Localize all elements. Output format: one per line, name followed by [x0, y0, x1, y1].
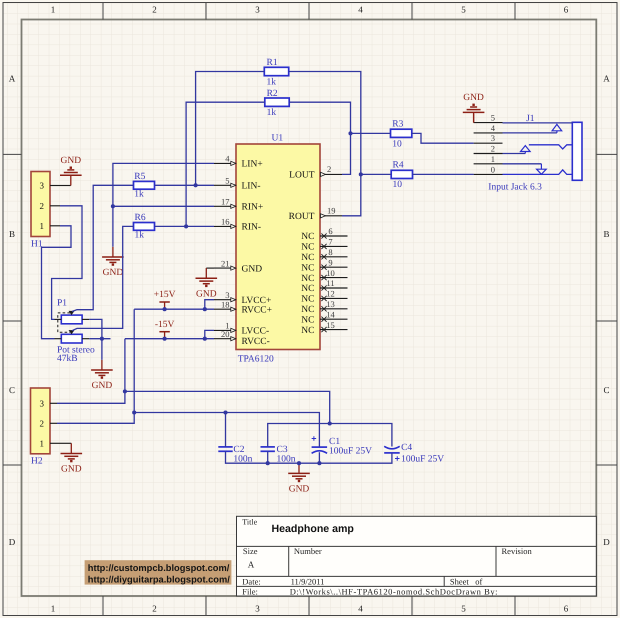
svg-text:Number: Number	[294, 546, 322, 556]
U1 pin 19 ROUT	[289, 206, 342, 222]
wire C3 bottom	[267, 451, 269, 463]
svg-text:6: 6	[564, 604, 569, 614]
junction C1 bottom	[317, 461, 321, 465]
U1 pin 20 RVCC-	[214, 329, 270, 347]
svg-text:NC: NC	[301, 253, 314, 263]
url note box	[85, 560, 232, 584]
svg-text:GND: GND	[196, 289, 217, 299]
svg-text:+15V: +15V	[154, 290, 176, 300]
ground at H1	[60, 156, 82, 185]
junction rail3 at C1 column	[328, 421, 332, 425]
wire H1 pin2 to pot section1	[52, 206, 82, 320]
svg-text:+: +	[395, 454, 400, 464]
wire +15V rail	[134, 308, 214, 310]
svg-text:GND: GND	[242, 264, 263, 274]
zone column ticks bottom	[103, 596, 515, 616]
capacitor C1 polarized	[311, 433, 372, 456]
svg-text:GND: GND	[103, 268, 124, 278]
svg-text:3: 3	[255, 5, 260, 15]
zone row ticks left	[3, 154, 22, 465]
U1 pin 6 NC	[301, 226, 347, 242]
junction +15V port	[163, 307, 167, 311]
svg-text:R3: R3	[392, 120, 403, 130]
J1 ring contact	[529, 145, 572, 149]
wire ROUT net to R4	[361, 173, 391, 175]
svg-text:NC: NC	[301, 232, 314, 242]
junction rail2 at H2 riser	[132, 410, 136, 414]
H1 pin 3 wire to ground	[60, 185, 71, 187]
J1 sleeve wire pin 5 to body	[503, 122, 573, 124]
svg-text:B: B	[9, 229, 15, 239]
svg-text:100uF 25V: 100uF 25V	[329, 446, 372, 456]
wire pot wiper1 to R5	[72, 185, 134, 311]
junction ROUT to R4	[359, 172, 363, 176]
svg-text:1: 1	[51, 604, 56, 614]
junction pot ground	[100, 337, 104, 341]
ground at H2	[61, 443, 83, 474]
J1 pin 1	[474, 154, 503, 164]
ground at U1 pin 21	[206, 267, 214, 269]
svg-text:RIN+: RIN+	[242, 203, 264, 213]
svg-text:17: 17	[221, 197, 230, 207]
U1 pin 12 NC	[301, 289, 347, 305]
svg-text:A: A	[603, 74, 610, 84]
svg-text:14: 14	[326, 309, 335, 319]
svg-text:10: 10	[326, 268, 335, 278]
svg-text:C1: C1	[329, 437, 340, 447]
resistor R5	[134, 172, 155, 200]
zone letters left	[9, 74, 16, 548]
wire bottom ground rail	[226, 451, 392, 463]
svg-text:GND: GND	[61, 465, 82, 475]
zone numbers top	[51, 5, 569, 15]
wire C1 bottom	[318, 452, 320, 463]
J1 pin 4 switch arrow	[503, 124, 562, 132]
svg-text:C4: C4	[401, 443, 412, 453]
svg-text:10: 10	[392, 139, 402, 149]
ground at pot P1	[91, 360, 113, 391]
U1 pin 2 LOUT	[289, 164, 342, 180]
jack J1 body	[572, 122, 582, 180]
svg-text:RVCC-: RVCC-	[242, 337, 270, 347]
svg-text:GND: GND	[92, 381, 113, 391]
wire C2 riser	[225, 413, 227, 447]
svg-text:2: 2	[152, 5, 157, 15]
svg-text:R6: R6	[135, 213, 146, 223]
svg-text:11: 11	[326, 278, 334, 288]
wire LVCC- branch	[205, 330, 214, 338]
svg-text:C3: C3	[277, 445, 288, 455]
svg-text:10: 10	[393, 180, 403, 190]
svg-text:LVCC+: LVCC+	[242, 296, 272, 306]
U1 pin 13 NC	[301, 299, 347, 315]
svg-text:Headphone amp: Headphone amp	[272, 523, 355, 535]
junction -15V port	[163, 337, 167, 341]
junction C3 bottom	[266, 461, 270, 465]
U1 pin 7 NC	[301, 237, 347, 253]
svg-text:1k: 1k	[267, 108, 277, 118]
wire LVCC+ branch	[205, 300, 214, 310]
pot P1 pin stubs	[55, 319, 90, 338]
svg-text:R4: R4	[393, 161, 404, 171]
svg-text:RIN-: RIN-	[242, 223, 262, 233]
title block frame	[237, 516, 597, 596]
op-amp U1 body	[236, 144, 320, 350]
junction LOUT to R3	[348, 131, 352, 135]
wire -15V rail	[125, 338, 214, 340]
svg-text:Revision: Revision	[502, 546, 533, 556]
svg-text:+: +	[311, 433, 316, 443]
U1 pin 4 LIN+	[214, 154, 263, 170]
svg-text:Size: Size	[243, 546, 258, 556]
svg-text:5: 5	[225, 176, 229, 186]
svg-text:NC: NC	[301, 326, 314, 336]
svg-text:GND: GND	[61, 156, 82, 166]
wire rail3 minus caps	[268, 424, 392, 447]
svg-text:9: 9	[328, 257, 332, 267]
junction rail2 at C2	[223, 410, 227, 414]
svg-text:LIN-: LIN-	[242, 182, 261, 192]
svg-text:2: 2	[152, 604, 157, 614]
J1 pin 2	[474, 144, 503, 154]
svg-text:NC: NC	[301, 284, 314, 294]
H2 pin 1	[40, 439, 58, 449]
U1 pin 5 LIN-	[214, 176, 261, 192]
svg-text:4: 4	[358, 5, 363, 15]
svg-text:1: 1	[491, 154, 495, 164]
svg-text:19: 19	[327, 206, 336, 216]
zone column ticks top	[103, 3, 515, 20]
svg-text:2: 2	[40, 419, 45, 429]
H2 pin 2	[40, 419, 58, 429]
svg-text:16: 16	[221, 217, 230, 227]
svg-text:12: 12	[326, 289, 335, 299]
wire -15V drop to rail1	[57, 339, 125, 404]
U1 pin 9 NC	[301, 257, 347, 273]
svg-text:C2: C2	[233, 445, 244, 455]
svg-text:0: 0	[491, 164, 495, 174]
svg-text:47kB: 47kB	[57, 354, 78, 364]
wire pot wiper2 to R6	[72, 226, 134, 330]
capacitor C2	[218, 445, 252, 465]
J1 pin 3	[474, 133, 503, 143]
U1 pin 21 GND	[214, 258, 262, 274]
svg-text:1: 1	[40, 439, 45, 449]
svg-text:5: 5	[491, 113, 495, 123]
resistor R1	[264, 58, 288, 87]
svg-text:4: 4	[358, 604, 363, 614]
junction LVCC- RVCC-	[203, 337, 207, 341]
svg-text:15: 15	[326, 320, 335, 330]
svg-text:Sheet: Sheet	[450, 577, 470, 587]
svg-text:7: 7	[328, 237, 332, 247]
wire R4 to J1 pin 0	[413, 173, 474, 175]
wire H1 pin1 to pot section2	[42, 226, 72, 339]
U1 pin 15 NC	[301, 320, 347, 336]
power port -15V	[155, 320, 175, 332]
svg-text:6: 6	[564, 5, 569, 15]
U1 pin 10 NC	[301, 268, 347, 284]
U1 pin 8 NC	[301, 247, 347, 263]
U1 pin 11 NC	[301, 278, 347, 294]
svg-text:5: 5	[461, 5, 466, 15]
svg-text:11/9/2011: 11/9/2011	[291, 577, 325, 587]
svg-text:NC: NC	[301, 315, 314, 325]
svg-text:13: 13	[326, 299, 335, 309]
title block labels	[242, 518, 532, 597]
J1 tip contact	[503, 170, 573, 175]
svg-text:1k: 1k	[135, 231, 145, 241]
svg-text:D: D	[9, 537, 16, 547]
J1 pin 4	[474, 123, 503, 133]
U1 pin 18 RVCC+	[214, 299, 272, 315]
wire R2 feedback left	[186, 102, 265, 226]
svg-text:http://diyguitarpa.blogspot.co: http://diyguitarpa.blogspot.com/	[88, 575, 230, 585]
svg-text:3: 3	[40, 399, 45, 409]
resistor R3	[391, 120, 412, 150]
svg-text:LOUT: LOUT	[289, 171, 315, 181]
svg-text:Title: Title	[242, 518, 257, 527]
H2 pin 3	[40, 399, 58, 409]
svg-text:TPA6120: TPA6120	[238, 354, 274, 364]
svg-text:21: 21	[221, 258, 230, 268]
zone letters right	[603, 74, 610, 548]
power port +15V	[154, 290, 176, 302]
wire LOUT net to R3	[351, 132, 391, 134]
pot P1 section 2 wiper arrow	[69, 330, 75, 334]
svg-text:20: 20	[221, 329, 230, 339]
zone row ticks right	[596, 154, 617, 465]
wire R6 to RIN-	[155, 225, 215, 227]
wire +15V drop to rail2	[57, 309, 134, 423]
connector H2 body	[31, 388, 51, 454]
wire RIN+ branch	[113, 205, 214, 207]
svg-text:Date:: Date:	[242, 577, 260, 587]
wire LIN+ to ground net	[113, 163, 214, 246]
pot P1 gang dashed link	[58, 313, 70, 332]
resistor R4	[391, 161, 412, 191]
svg-text:A: A	[248, 559, 255, 569]
svg-text:2: 2	[491, 144, 495, 154]
J1 pin 2 switch arrow	[503, 146, 531, 154]
svg-text:1k: 1k	[134, 190, 144, 200]
svg-text:ROUT: ROUT	[289, 212, 315, 222]
svg-text:8: 8	[328, 247, 332, 257]
resistor R2	[265, 89, 289, 118]
svg-text:2: 2	[327, 164, 331, 174]
svg-text:6: 6	[328, 226, 332, 236]
junction LIN+ RIN+ ground net	[111, 204, 115, 208]
svg-text:R5: R5	[134, 172, 145, 182]
wire rail1 minus supply to C1 riser	[125, 391, 330, 423]
svg-text:http://custompcb.blogspot.com/: http://custompcb.blogspot.com/	[88, 563, 230, 573]
wire R1 right to ROUT net	[289, 72, 361, 216]
junction LVCC+ RVCC+	[203, 307, 207, 311]
U1 pin 1 LVCC-	[214, 321, 269, 337]
wire pot section2 bottom to ground	[89, 338, 110, 340]
svg-text:D: D	[603, 537, 610, 547]
svg-text:D:\!Works\..\HF-TPA6120-nomod.: D:\!Works\..\HF-TPA6120-nomod.SchDocDraw…	[290, 586, 498, 596]
svg-text:3: 3	[225, 290, 229, 300]
U1 pin 16 RIN-	[214, 217, 261, 233]
J1 pin 0	[474, 164, 503, 174]
svg-text:3: 3	[491, 133, 495, 143]
pot P1 section 1 wiper arrow	[69, 311, 75, 315]
wire R1 feedback left	[196, 72, 265, 186]
junction rail1 at H2 riser	[123, 389, 127, 393]
svg-text:NC: NC	[301, 274, 314, 284]
svg-text:A: A	[9, 74, 16, 84]
pot P1 section 1 body	[61, 315, 82, 324]
U1 pin 14 NC	[301, 309, 347, 325]
U1 pin 3 LVCC+	[214, 290, 271, 306]
wire R3 to J1 pin 3	[412, 133, 474, 143]
svg-text:NC: NC	[301, 263, 314, 273]
svg-text:RVCC+: RVCC+	[242, 305, 272, 315]
svg-text:U1: U1	[272, 134, 284, 144]
pot P1 section 2 body	[61, 334, 82, 343]
svg-text:H2: H2	[31, 457, 43, 467]
svg-text:NC: NC	[301, 295, 314, 305]
svg-text:100uF 25V: 100uF 25V	[401, 455, 444, 465]
svg-text:1k: 1k	[267, 77, 277, 87]
svg-text:C: C	[603, 385, 609, 395]
wire pot section1 bottom to ground net	[89, 319, 102, 338]
ground at filter caps	[288, 463, 310, 494]
svg-text:2: 2	[40, 201, 45, 211]
junction LIN- feedback	[194, 183, 198, 187]
junction RIN- feedback	[184, 224, 188, 228]
svg-text:File:: File:	[242, 586, 258, 596]
svg-text:1: 1	[51, 5, 56, 15]
U1 pin 17 RIN+	[214, 197, 263, 213]
svg-text:NC: NC	[301, 243, 314, 253]
svg-text:18: 18	[221, 299, 230, 309]
svg-text:-15V: -15V	[155, 320, 175, 330]
capacitor C4 polarized	[384, 443, 444, 465]
svg-text:C: C	[9, 385, 15, 395]
svg-text:LVCC-: LVCC-	[242, 327, 270, 337]
wire rail2 plus supply	[134, 413, 319, 448]
svg-text:LIN+: LIN+	[242, 160, 263, 170]
svg-text:P1: P1	[57, 298, 67, 308]
svg-text:of: of	[475, 577, 482, 587]
svg-text:GND: GND	[463, 93, 484, 103]
svg-text:Input Jack 6.3: Input Jack 6.3	[488, 182, 542, 192]
H1 pin 1	[40, 221, 61, 231]
svg-text:R2: R2	[267, 89, 278, 99]
svg-text:5: 5	[461, 604, 466, 614]
J1 pin 5	[474, 113, 503, 123]
wire R5 to LIN-	[155, 184, 215, 186]
svg-text:1: 1	[40, 221, 45, 231]
junction ground rail	[297, 461, 301, 465]
ground at J1 pin 5	[473, 114, 475, 123]
wire R2 right to LOUT net	[289, 102, 350, 174]
zone numbers bottom	[51, 604, 569, 614]
J1 pin 1 switch arrow	[503, 164, 547, 175]
svg-text:R1: R1	[267, 58, 278, 68]
svg-text:NC: NC	[301, 305, 314, 315]
ground at LIN+ RIN+ net	[102, 247, 124, 278]
H1 pin 2	[40, 201, 61, 211]
connector H1 body	[31, 172, 50, 237]
resistor R6	[134, 213, 155, 241]
svg-text:3: 3	[255, 604, 260, 614]
H2 pin 1 wire to ground	[57, 442, 71, 444]
H1 pin 3	[40, 181, 61, 191]
svg-text:B: B	[603, 229, 609, 239]
svg-text:GND: GND	[289, 484, 310, 494]
capacitor C3	[261, 445, 296, 465]
svg-text:3: 3	[40, 181, 45, 191]
